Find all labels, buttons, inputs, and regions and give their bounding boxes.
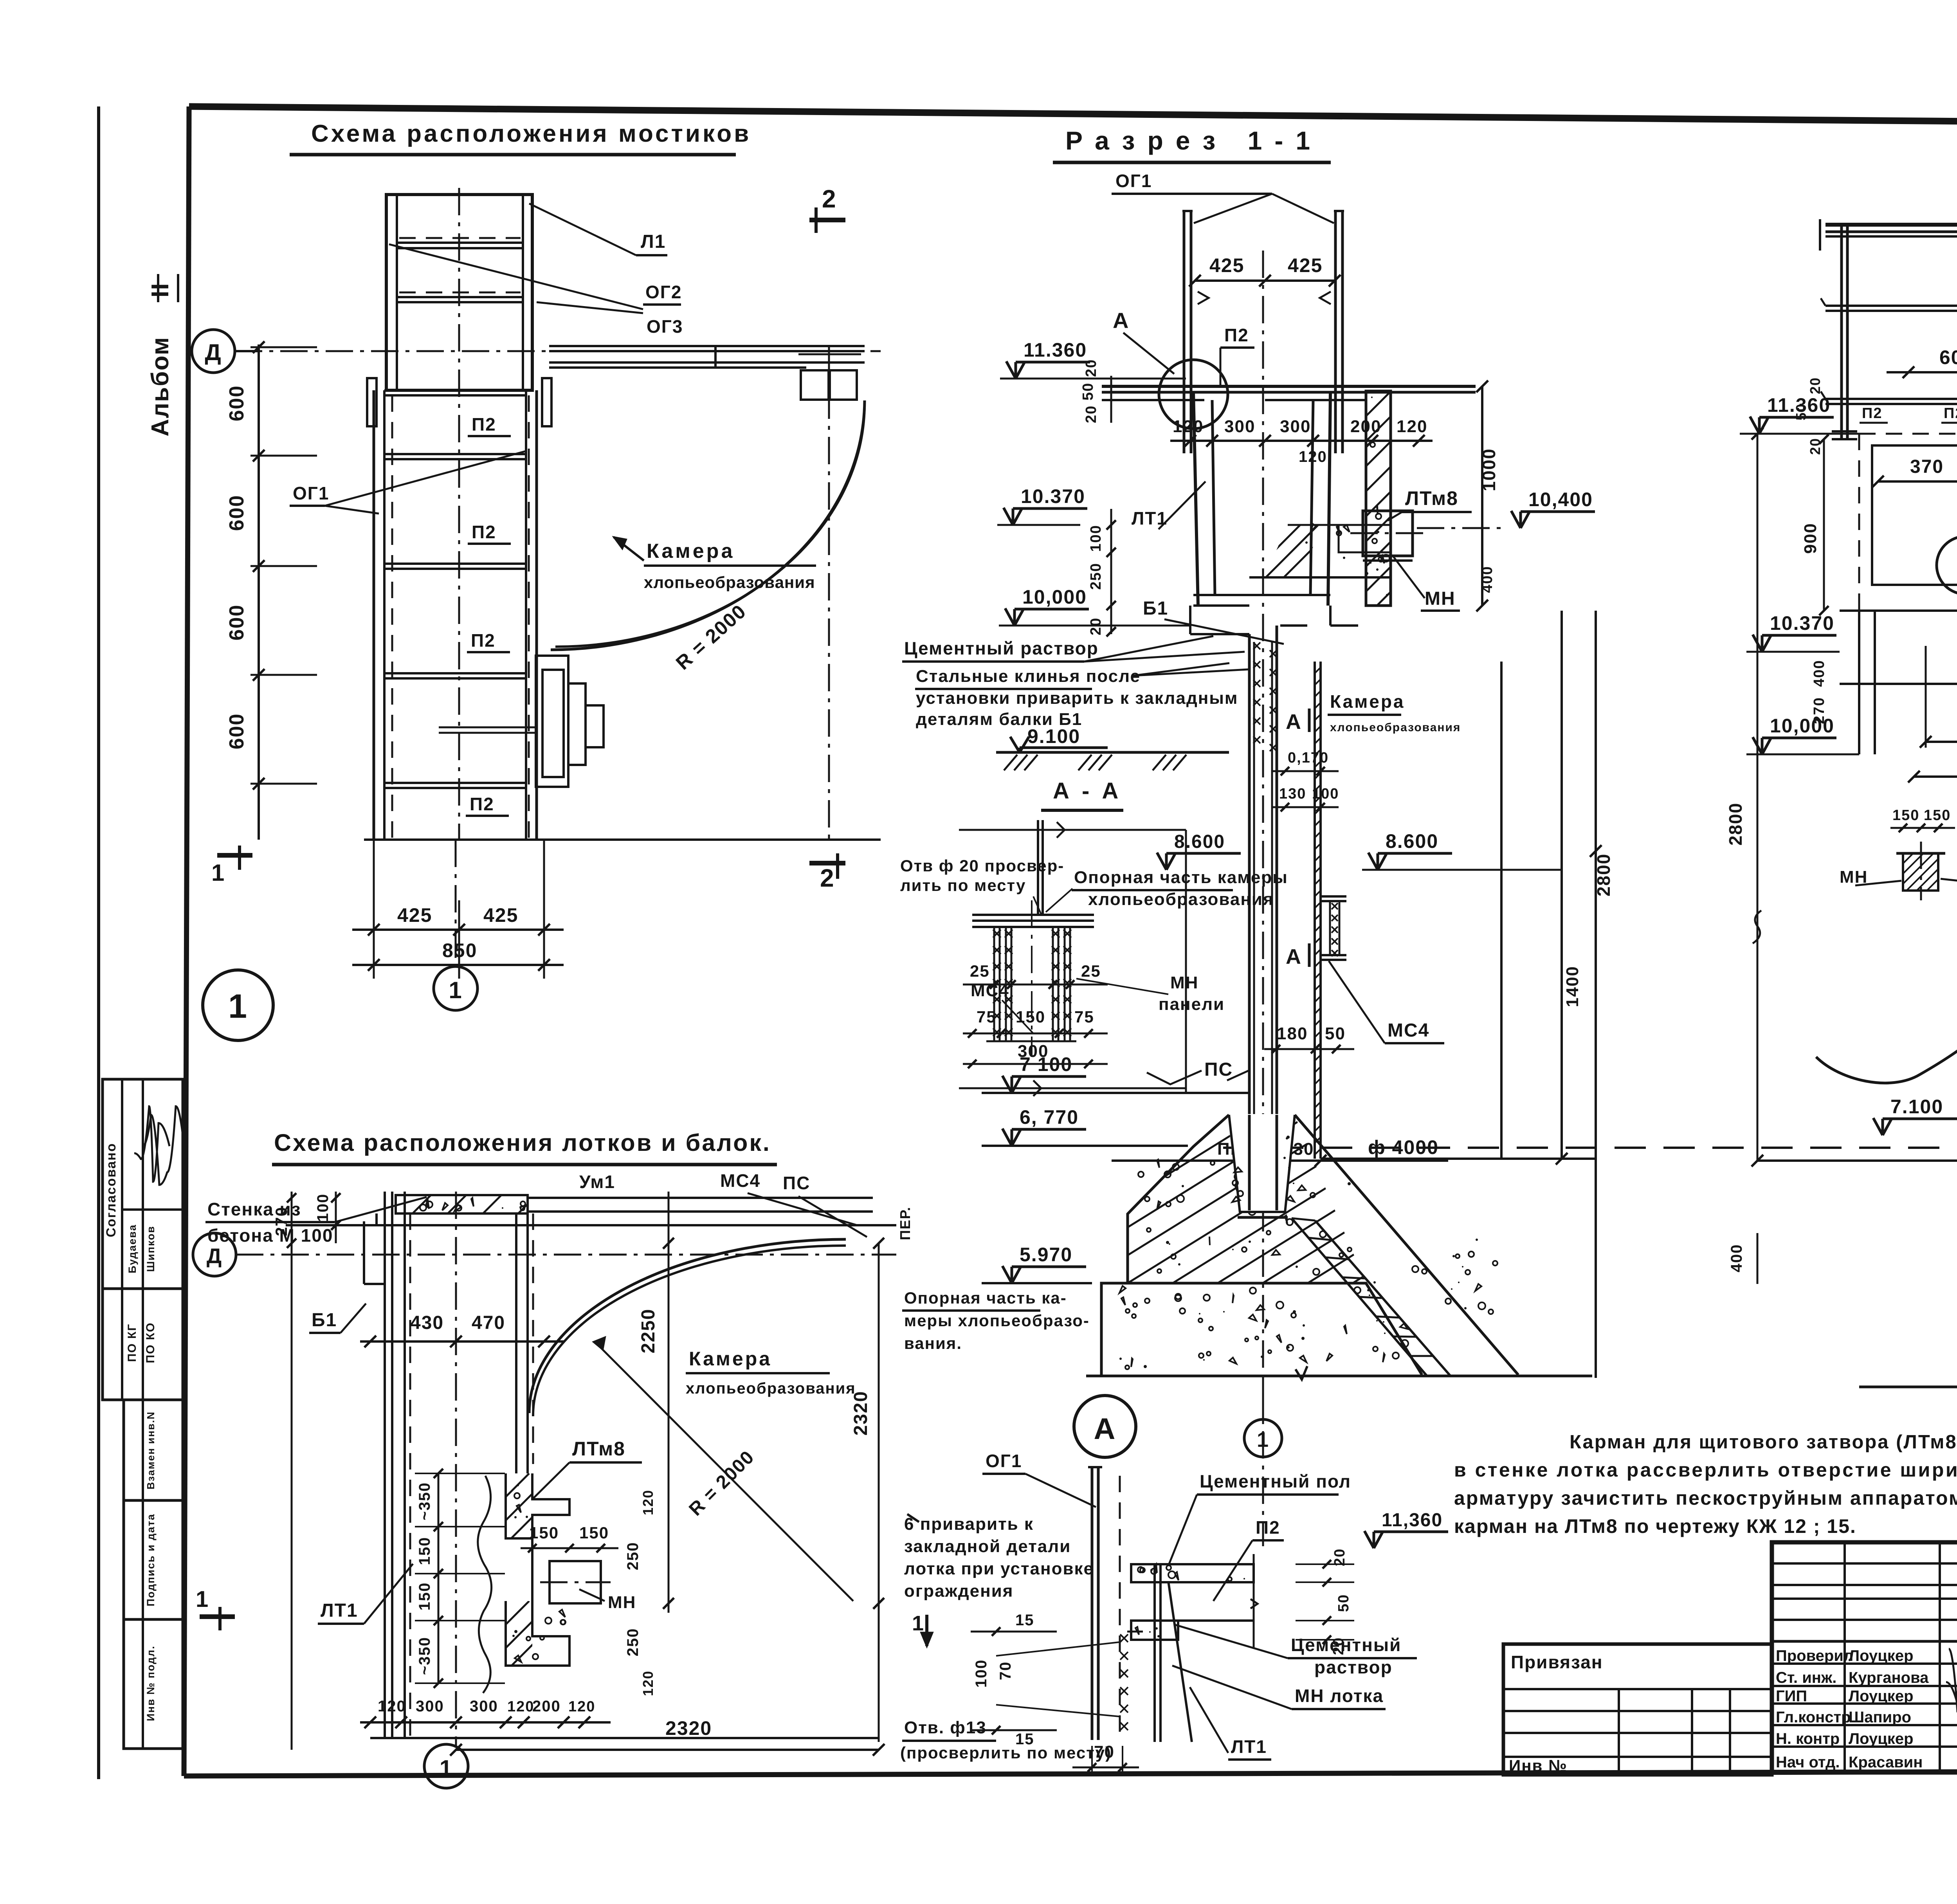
svg-text:ОГ1: ОГ1 <box>986 1451 1022 1471</box>
svg-text:2: 2 <box>820 864 835 892</box>
s22: dim 370 370 <box>1878 480 1957 483</box>
svg-text:2800: 2800 <box>1725 802 1746 846</box>
svg-text:400: 400 <box>1811 660 1827 687</box>
svg-text:7.100: 7.100 <box>1890 1096 1943 1118</box>
sidebar stamp box 4 (Подпись и дата) <box>124 1500 183 1619</box>
svg-text:470: 470 <box>472 1313 505 1333</box>
svg-text:Подпись и дата: Подпись и дата <box>145 1513 157 1606</box>
svg-text:10,000: 10,000 <box>1022 586 1087 608</box>
svg-text:установки приварить к закладны: установки приварить к закладным <box>916 689 1238 708</box>
s22: ground base line 2-2 <box>1859 1386 1957 1388</box>
plan: bridges П2 <box>384 389 526 391</box>
n1: trough wall <box>1153 1564 1156 1742</box>
svg-text:2250: 2250 <box>638 1309 659 1354</box>
n1: floor slab <box>1131 1564 1254 1582</box>
svg-text:в стенке лотка рассверлить от: в стенке лотка рассверлить отверстие шир… <box>1454 1459 1957 1481</box>
s11: chamber right boundary <box>1500 662 1503 1159</box>
svg-text:2320: 2320 <box>851 1391 871 1436</box>
svg-text:Инв № подл.: Инв № подл. <box>145 1645 157 1721</box>
plan: channel left wall <box>373 390 375 840</box>
svg-text:ОГ1: ОГ1 <box>1115 171 1152 191</box>
svg-text:Шипков: Шипков <box>145 1226 157 1272</box>
plan: axis Д line <box>235 350 881 352</box>
plan: walkway to right <box>549 345 865 347</box>
svg-text:1: 1 <box>228 988 248 1025</box>
svg-text:250: 250 <box>624 1542 642 1570</box>
svg-text:Гл.констр: Гл.констр <box>1776 1709 1851 1726</box>
svg-text:250: 250 <box>1088 563 1104 590</box>
svg-text:10,400: 10,400 <box>1528 489 1593 510</box>
svg-text:75: 75 <box>1074 1008 1094 1026</box>
svg-text:20: 20 <box>1083 405 1099 423</box>
svg-text:120: 120 <box>568 1698 595 1715</box>
svg-text:120: 120 <box>1173 417 1204 436</box>
svg-text:Камера: Камера <box>647 540 735 563</box>
svg-text:9.100: 9.100 <box>1027 725 1080 747</box>
svg-text:150: 150 <box>416 1537 433 1565</box>
plan: quarter arc R=2000 <box>551 400 865 650</box>
s11: concrete under trough <box>1305 541 1308 544</box>
s22: dim ф4000 <box>1757 1159 1957 1162</box>
signatures <box>134 1106 169 1182</box>
svg-text:А - А: А - А <box>1053 778 1121 804</box>
svg-text:МС4: МС4 <box>971 981 1009 1000</box>
svg-text:Проверил: Проверил <box>1776 1647 1853 1664</box>
svg-text:(просверлить по месту): (просверлить по месту) <box>900 1744 1112 1762</box>
svg-text:Красавин: Красавин <box>1849 1754 1923 1771</box>
sidebar stamp box 5 (Инв № подл) <box>124 1619 183 1749</box>
svg-text:Курганова: Курганова <box>1849 1669 1929 1686</box>
svg-text:120: 120 <box>640 1670 656 1696</box>
svg-text:ОГ1: ОГ1 <box>293 483 329 503</box>
svg-text:20: 20 <box>1807 377 1823 394</box>
svg-text:100: 100 <box>314 1194 332 1222</box>
svg-text:раствор: раствор <box>1314 1657 1393 1677</box>
svg-text:11.360: 11.360 <box>1024 339 1087 361</box>
svg-text:вания.: вания. <box>904 1334 962 1352</box>
svg-text:180: 180 <box>1277 1024 1308 1043</box>
svg-text:МС4: МС4 <box>720 1170 760 1191</box>
s11: foundation lower block <box>1101 1283 1422 1375</box>
svg-text:Схема расположения мостиков: Схема расположения мостиков <box>311 120 751 147</box>
s22: post feet <box>1832 430 1857 433</box>
svg-text:150: 150 <box>1892 807 1919 824</box>
s22: platform deck <box>1825 223 1957 227</box>
svg-text:П2: П2 <box>1256 1517 1280 1538</box>
svg-text:20: 20 <box>1807 438 1823 455</box>
svg-text:Камера: Камера <box>1330 691 1405 712</box>
svg-text:ПС: ПС <box>783 1173 810 1193</box>
s11: ground base line <box>1086 1375 1592 1378</box>
svg-text:ЛТм8: ЛТм8 <box>572 1438 625 1460</box>
svg-text:хлопьеобразования: хлопьеобразования <box>1088 890 1274 909</box>
svg-text:ЛТ1: ЛТ1 <box>321 1600 358 1621</box>
svg-text:Привязан: Привязан <box>1511 1652 1603 1672</box>
svg-text:120: 120 <box>1299 448 1327 465</box>
svg-text:100: 100 <box>973 1659 990 1688</box>
s11: column walls <box>1248 634 1251 1212</box>
s11: dim 1000 <box>1481 386 1483 606</box>
svg-text:120: 120 <box>507 1698 534 1715</box>
s11: МС4 bracket detail <box>1321 895 1346 898</box>
svg-text:Альбом: Альбом <box>147 337 174 437</box>
s11: trough walls ЛТ1 <box>1193 392 1198 606</box>
svg-text:250: 250 <box>624 1628 642 1657</box>
svg-text:300: 300 <box>1280 417 1311 436</box>
A-A break line bottom <box>959 1087 1186 1089</box>
s22: lower tank walls <box>1858 611 1860 754</box>
svg-text:50: 50 <box>1080 382 1096 400</box>
svg-text:Д: Д <box>207 1244 222 1268</box>
svg-text:150: 150 <box>1016 1008 1045 1026</box>
s22: dims 150 150 above detail <box>1890 827 1955 829</box>
bl: upper-left big rect (Б1 slab) <box>364 1221 403 1284</box>
plan: support blocks right of channel <box>536 656 568 787</box>
s22: tank inner solid box <box>1872 445 1957 585</box>
svg-text:150: 150 <box>416 1582 433 1611</box>
svg-text:А: А <box>1286 945 1302 968</box>
svg-text:Лоуцкер: Лоуцкер <box>1849 1688 1914 1705</box>
s22: МН circle <box>1937 536 1957 594</box>
plan: centerline vertical <box>458 188 460 840</box>
svg-text:Взамен инв.N: Взамен инв.N <box>145 1411 157 1489</box>
s22: posts <box>1840 225 1843 439</box>
svg-text:Будаева: Будаева <box>126 1224 138 1273</box>
svg-text:панели: панели <box>1159 995 1225 1014</box>
svg-text:600: 600 <box>1939 346 1957 368</box>
svg-text:ограждения: ограждения <box>904 1581 1013 1601</box>
svg-text:МН: МН <box>1425 588 1456 609</box>
svg-text:П2: П2 <box>1944 405 1957 422</box>
svg-text:Карман для щитового затвора: Карман для щитового затвора (ЛТм8) выпол… <box>1570 1432 1957 1453</box>
stamp: left attachment table <box>1503 1644 1772 1775</box>
plan: leader arrow to arc <box>614 537 644 561</box>
svg-text:МН: МН <box>608 1593 636 1612</box>
svg-text:600: 600 <box>225 385 248 422</box>
svg-text:11,360: 11,360 <box>1382 1510 1443 1531</box>
s11: dims 120 300 300 200 120 <box>1170 440 1433 442</box>
bl: circle 1 bottom <box>424 1744 468 1788</box>
svg-text:Нач отд.: Нач отд. <box>1776 1754 1840 1771</box>
plan: dim 425/425/850 <box>373 840 375 979</box>
A-A bolts <box>993 927 995 1041</box>
plan: channel bottom <box>364 838 881 841</box>
plan: axis circle 1 big <box>203 970 273 1040</box>
svg-text:425: 425 <box>397 904 432 926</box>
stamp: left grid <box>1772 1562 1957 1565</box>
svg-text:15: 15 <box>1015 1612 1034 1629</box>
svg-text:300: 300 <box>1018 1042 1049 1061</box>
s11: axis circle 1 <box>1262 1376 1264 1419</box>
svg-text:20: 20 <box>1083 359 1099 377</box>
svg-text:2: 2 <box>822 185 837 213</box>
svg-text:300: 300 <box>470 1698 498 1715</box>
svg-text:1000: 1000 <box>1479 448 1499 491</box>
svg-text:Л1: Л1 <box>641 231 666 252</box>
svg-text:П2: П2 <box>470 794 494 814</box>
A-A right extension <box>1185 830 1187 1092</box>
svg-text:Согласовано: Согласовано <box>104 1143 119 1237</box>
svg-text:150: 150 <box>1924 807 1951 824</box>
svg-text:хлопьеобразования: хлопьеобразования <box>644 573 815 591</box>
svg-text:хлопьеобразования: хлопьеобразования <box>1330 721 1461 734</box>
svg-text:850: 850 <box>442 939 477 961</box>
s11: beam and column <box>1189 606 1191 634</box>
svg-text:хлопьеобразования: хлопьеобразования <box>686 1380 856 1397</box>
svg-text:50: 50 <box>1335 1594 1352 1612</box>
s11: centerline <box>1262 251 1264 1546</box>
svg-text:150: 150 <box>529 1524 559 1542</box>
svg-text:1: 1 <box>211 860 225 886</box>
svg-text:МН: МН <box>1170 973 1198 992</box>
svg-text:ОГ3: ОГ3 <box>647 316 683 337</box>
svg-text:270: 270 <box>1811 697 1827 724</box>
svg-text:ЛТм8: ЛТм8 <box>1405 487 1458 509</box>
svg-text:120: 120 <box>640 1489 656 1515</box>
A-A centerline <box>1031 900 1033 1057</box>
plan: left dim chain 600s <box>258 344 260 840</box>
svg-text:Лоуцкер: Лоуцкер <box>1849 1647 1914 1664</box>
bl: pocket detail hatched <box>506 1473 569 1538</box>
svg-text:425: 425 <box>1209 254 1244 276</box>
svg-text:Цементный пол: Цементный пол <box>1200 1471 1351 1491</box>
svg-text:900: 900 <box>1801 523 1820 554</box>
svg-text:ГИП: ГИП <box>1776 1688 1807 1705</box>
s22: dim 2320 <box>1914 775 1957 778</box>
svg-text:5.970: 5.970 <box>1020 1244 1072 1266</box>
s11: railing posts <box>1183 211 1186 453</box>
svg-text:Опорная часть камеры: Опорная часть камеры <box>1074 868 1288 887</box>
svg-text:МС4: МС4 <box>1388 1020 1429 1041</box>
svg-text:Шапиро: Шапиро <box>1849 1709 1911 1726</box>
svg-text:ЛТ1: ЛТ1 <box>1231 1736 1267 1757</box>
svg-text:400: 400 <box>1728 1244 1745 1273</box>
svg-text:А: А <box>1286 710 1302 734</box>
svg-text:70: 70 <box>1094 1742 1115 1762</box>
plan: tower outer walls <box>386 195 532 390</box>
bl: freehand break line <box>478 1476 492 1693</box>
svg-text:2800: 2800 <box>1593 853 1614 896</box>
svg-text:1: 1 <box>912 1612 924 1635</box>
svg-text:10.370: 10.370 <box>1021 485 1085 507</box>
svg-text:ПЕР.: ПЕР. <box>897 1206 913 1240</box>
svg-text:~350: ~350 <box>416 1482 433 1520</box>
s11: floor slab <box>1102 385 1476 388</box>
svg-text:Опорная часть ка-: Опорная часть ка- <box>904 1289 1067 1307</box>
sidebar stamp box 3 (Взамен инв) <box>124 1400 183 1500</box>
svg-text:арматуру зачистить пескоструйн: арматуру зачистить пескоструйным аппарат… <box>1454 1487 1957 1509</box>
svg-text:ПО КО: ПО КО <box>144 1322 157 1363</box>
svg-text:100: 100 <box>1088 525 1104 552</box>
svg-text:Цементный: Цементный <box>1291 1635 1401 1655</box>
svg-text:120: 120 <box>378 1698 406 1715</box>
svg-text:П2: П2 <box>472 414 496 435</box>
s22: wavy water curve <box>1816 755 1957 1083</box>
svg-text:300: 300 <box>1224 417 1255 436</box>
svg-text:25: 25 <box>970 962 990 980</box>
svg-text:1: 1 <box>1257 1428 1269 1451</box>
svg-text:0,170: 0,170 <box>1288 750 1329 766</box>
svg-text:70: 70 <box>997 1661 1014 1680</box>
svg-text:Ст. инж.: Ст. инж. <box>1776 1669 1836 1686</box>
svg-text:ПО КГ: ПО КГ <box>126 1323 139 1362</box>
svg-text:600: 600 <box>225 604 248 641</box>
bl: top walkway lines <box>286 1224 896 1226</box>
svg-text:Разрез 1-1: Разрез 1-1 <box>1065 126 1323 155</box>
svg-text:370: 370 <box>1910 456 1944 477</box>
svg-text:425: 425 <box>483 904 518 926</box>
svg-text:лить по месту: лить по месту <box>900 876 1026 894</box>
svg-text:1: 1 <box>449 977 462 1003</box>
s11: МН box <box>1363 511 1413 556</box>
svg-text:Стальные клинья после: Стальные клинья после <box>916 667 1141 686</box>
svg-text:Н. контр: Н. контр <box>1776 1730 1840 1747</box>
svg-text:6, 770: 6, 770 <box>1020 1106 1079 1128</box>
svg-text:Камера: Камера <box>689 1348 772 1370</box>
plan: axis circle 1 small <box>455 840 457 966</box>
svg-text:270: 270 <box>272 1206 290 1236</box>
svg-text:~350: ~350 <box>416 1637 433 1675</box>
bl: dashed centerline <box>455 1192 457 1746</box>
svg-text:1400: 1400 <box>1563 966 1582 1007</box>
svg-text:Лоуцкер: Лоуцкер <box>1849 1730 1914 1747</box>
svg-text:1: 1 <box>440 1756 453 1781</box>
s22: dim 600 x4 <box>1887 371 1957 373</box>
svg-text:300: 300 <box>416 1698 444 1715</box>
stamp: signatures <box>1956 1657 1957 1750</box>
bl: Д axis circle <box>193 1233 236 1276</box>
svg-text:11.360: 11.360 <box>1767 394 1831 416</box>
s22: tank dashed outline <box>1859 433 1957 435</box>
svg-text:200: 200 <box>532 1698 561 1715</box>
svg-text:П2: П2 <box>471 630 496 651</box>
s11: slope band <box>1292 1218 1427 1376</box>
svg-text:120: 120 <box>1397 417 1427 436</box>
svg-text:А: А <box>1113 308 1129 333</box>
s11: ЛТм8 hatched wall <box>1366 391 1391 606</box>
svg-text:400: 400 <box>1479 566 1496 593</box>
bl: bottom walls end <box>370 1737 879 1739</box>
A-A anchor stem <box>1037 820 1039 915</box>
svg-text:50: 50 <box>1325 1024 1346 1043</box>
bl: arc R2000 <box>529 1239 846 1413</box>
s11: axis circle А <box>1074 1396 1136 1457</box>
svg-text:100: 100 <box>1312 786 1339 802</box>
stamp: main outer box <box>1772 1542 1957 1772</box>
svg-text:Б1: Б1 <box>1143 598 1168 619</box>
s11: foundation pit <box>1227 1114 1296 1213</box>
svg-text:75: 75 <box>977 1008 997 1026</box>
svg-text:130: 130 <box>1279 786 1306 802</box>
svg-text:карман на ЛТм8 по чертежу: карман на ЛТм8 по чертежу КЖ 12 ; 15. <box>1454 1515 1856 1537</box>
bl: vertical trough walls <box>384 1192 386 1738</box>
s22: МН МС4 small detail <box>1903 853 1938 891</box>
svg-text:Д: Д <box>205 340 222 365</box>
plan: wall tabs <box>367 378 377 426</box>
svg-text:Схема расположения лотков и: Схема расположения лотков и балок. <box>274 1129 771 1156</box>
s11: chamber wall hatched <box>1314 662 1316 1159</box>
svg-text:25: 25 <box>1081 962 1101 980</box>
svg-text:МН лотка: МН лотка <box>1295 1686 1384 1706</box>
bl: pocket inner walls <box>531 1538 533 1601</box>
s11: column top bolts <box>1253 642 1260 649</box>
svg-text:П2: П2 <box>1862 405 1882 422</box>
bl: top concrete wall strip <box>396 1195 528 1213</box>
n1: post <box>1091 1467 1094 1740</box>
A-A top boundary <box>959 829 1186 831</box>
sidebar stamp box 1 (Согласовано) <box>103 1079 183 1289</box>
n1: slab right break <box>1253 1554 1255 1648</box>
svg-text:Инв №: Инв № <box>1509 1756 1568 1775</box>
A-A plate <box>972 914 1094 916</box>
svg-text:закладной детали: закладной детали <box>904 1537 1071 1556</box>
svg-text:ОГ2: ОГ2 <box>645 282 682 302</box>
svg-text:6 приварить к: 6 приварить к <box>904 1515 1034 1534</box>
svg-text:Б1: Б1 <box>312 1310 337 1331</box>
plan: channel right wall <box>525 390 527 840</box>
bl: R=2000 leader <box>595 1342 853 1601</box>
sheet frame <box>97 106 100 1779</box>
svg-text:425: 425 <box>1288 254 1323 276</box>
svg-text:П2: П2 <box>472 522 496 542</box>
plan: tower rungs <box>397 242 523 244</box>
plan: right platform pads <box>801 370 829 400</box>
svg-text:8.600: 8.600 <box>1386 830 1438 852</box>
s11: dim 425 425 <box>1195 279 1335 282</box>
svg-text:430: 430 <box>410 1313 444 1333</box>
sidebar stamp box 2 (ПО КГ/ПО КО) <box>103 1289 183 1400</box>
svg-text:ПС: ПС <box>1204 1059 1233 1080</box>
svg-text:П2: П2 <box>1224 325 1249 345</box>
svg-text:II: II <box>147 283 174 297</box>
svg-text:150: 150 <box>579 1524 609 1542</box>
svg-text:600: 600 <box>225 495 248 531</box>
n1: bolts <box>1120 1634 1128 1642</box>
svg-text:Отв. ф13: Отв. ф13 <box>904 1718 987 1737</box>
s22: dim 2250 <box>1926 741 1957 743</box>
svg-text:600: 600 <box>225 713 248 750</box>
svg-text:2320: 2320 <box>665 1717 712 1739</box>
s22: rails <box>1825 305 1957 307</box>
plan: circle Д axis marker <box>192 330 235 373</box>
svg-text:Отв ф 20 просвер-: Отв ф 20 просвер- <box>900 856 1064 875</box>
svg-text:А: А <box>1094 1412 1116 1446</box>
svg-text:меры хлопьеобразо-: меры хлопьеобразо- <box>904 1311 1090 1330</box>
s11: foundation mound outline <box>1128 1115 1229 1283</box>
s22: left rail hooks <box>1821 298 1825 306</box>
svg-text:Ум1: Ум1 <box>579 1172 615 1192</box>
svg-text:Цементный раствор: Цементный раствор <box>904 638 1099 658</box>
svg-text:лотка при установке: лотка при установке <box>904 1559 1094 1578</box>
svg-text:10.370: 10.370 <box>1770 612 1834 634</box>
svg-text:8.600: 8.600 <box>1174 831 1225 852</box>
svg-text:1: 1 <box>196 1587 209 1612</box>
